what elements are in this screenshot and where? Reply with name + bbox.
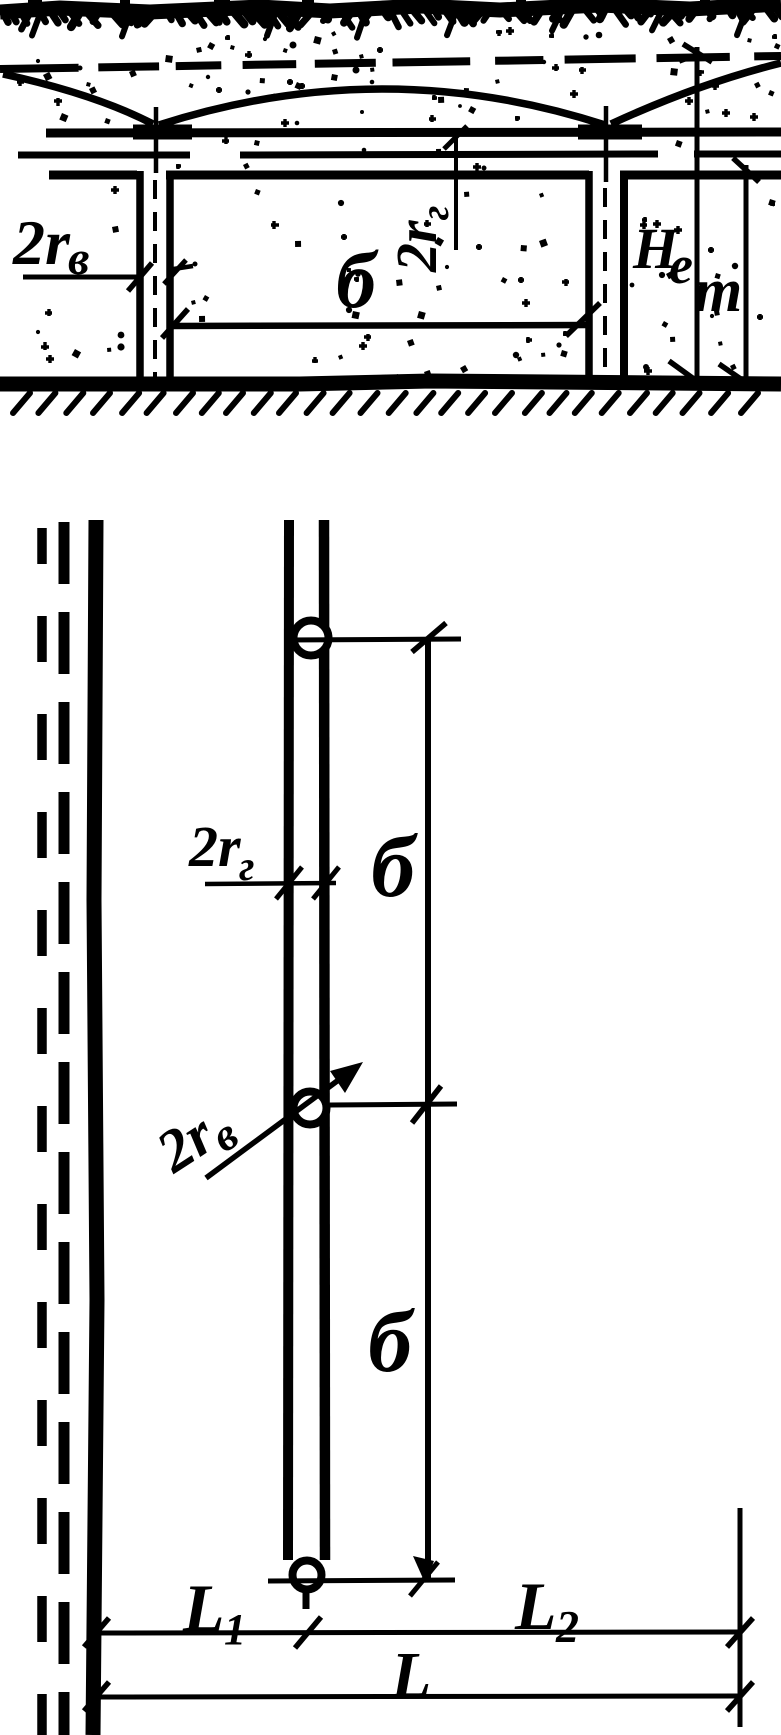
soil texture dots	[496, 30, 502, 36]
base hatching	[13, 393, 30, 413]
dimension line b (spacing) top figure	[172, 325, 590, 326]
dimension line L1 L2	[95, 1632, 740, 1633]
spacing dimension vertical line	[425, 641, 431, 1578]
dimension line m	[744, 165, 749, 388]
svg-text:б: б	[368, 1294, 415, 1391]
svg-text:L: L	[514, 1568, 557, 1644]
dimension line 2r_g bottom	[205, 883, 336, 884]
connector line middle	[330, 1104, 457, 1105]
impermeable base line	[0, 381, 781, 384]
drain line right	[324, 520, 325, 1560]
slash top	[412, 623, 446, 652]
well 1 dashed axis	[153, 180, 157, 199]
static water level (dashed line)	[0, 68, 79, 69]
river water dashed line (outer)	[37, 528, 47, 564]
drain line left	[288, 520, 289, 1560]
lowered water level line	[46, 132, 781, 133]
dimension line H_e	[695, 47, 700, 388]
dimension arrow bottom of spacing line	[413, 1556, 434, 1583]
svg-text:e: e	[669, 235, 693, 295]
well circle bottom	[293, 1561, 322, 1590]
svg-text:2r: 2r	[188, 814, 241, 879]
svg-text:2: 2	[555, 1601, 579, 1652]
well 1 left wall	[136, 171, 144, 386]
well 1 axis tick	[154, 107, 159, 173]
depression (drawdown) curve	[3, 74, 153, 124]
right extension vertical line	[738, 1508, 743, 1727]
svg-text:L: L	[390, 1639, 431, 1712]
connector line top	[285, 639, 461, 640]
well 2 left wall	[585, 171, 593, 386]
dimension line L	[95, 1696, 740, 1697]
ground surface	[0, 4, 781, 12]
well circle middle	[294, 1092, 327, 1125]
connector line bottom	[268, 1580, 455, 1581]
svg-text:в: в	[68, 232, 89, 285]
leader 2r_g top figure	[454, 137, 458, 250]
well circle top	[294, 621, 329, 656]
svg-text:L: L	[182, 1570, 225, 1646]
svg-text:2r: 2r	[12, 207, 71, 278]
drain stub below bottom circle	[303, 1593, 310, 1609]
river bank solid line	[93, 520, 97, 1735]
river water dashed line (inner)	[59, 522, 70, 584]
leader 2r_v bottom	[206, 1070, 352, 1178]
well 2 dashed axis	[603, 188, 607, 207]
well 2 axis tick	[604, 106, 609, 182]
slash middle	[412, 1086, 441, 1123]
well 1 right wall	[166, 171, 174, 386]
well 2 right wall	[620, 171, 628, 386]
leader arrowhead	[330, 1062, 363, 1093]
svg-text:1: 1	[224, 1605, 246, 1654]
svg-text:б: б	[371, 819, 418, 916]
dimension line 2r_v	[23, 275, 141, 280]
horizontal drain gallery line	[18, 152, 190, 159]
aquifer roof line	[49, 171, 137, 180]
